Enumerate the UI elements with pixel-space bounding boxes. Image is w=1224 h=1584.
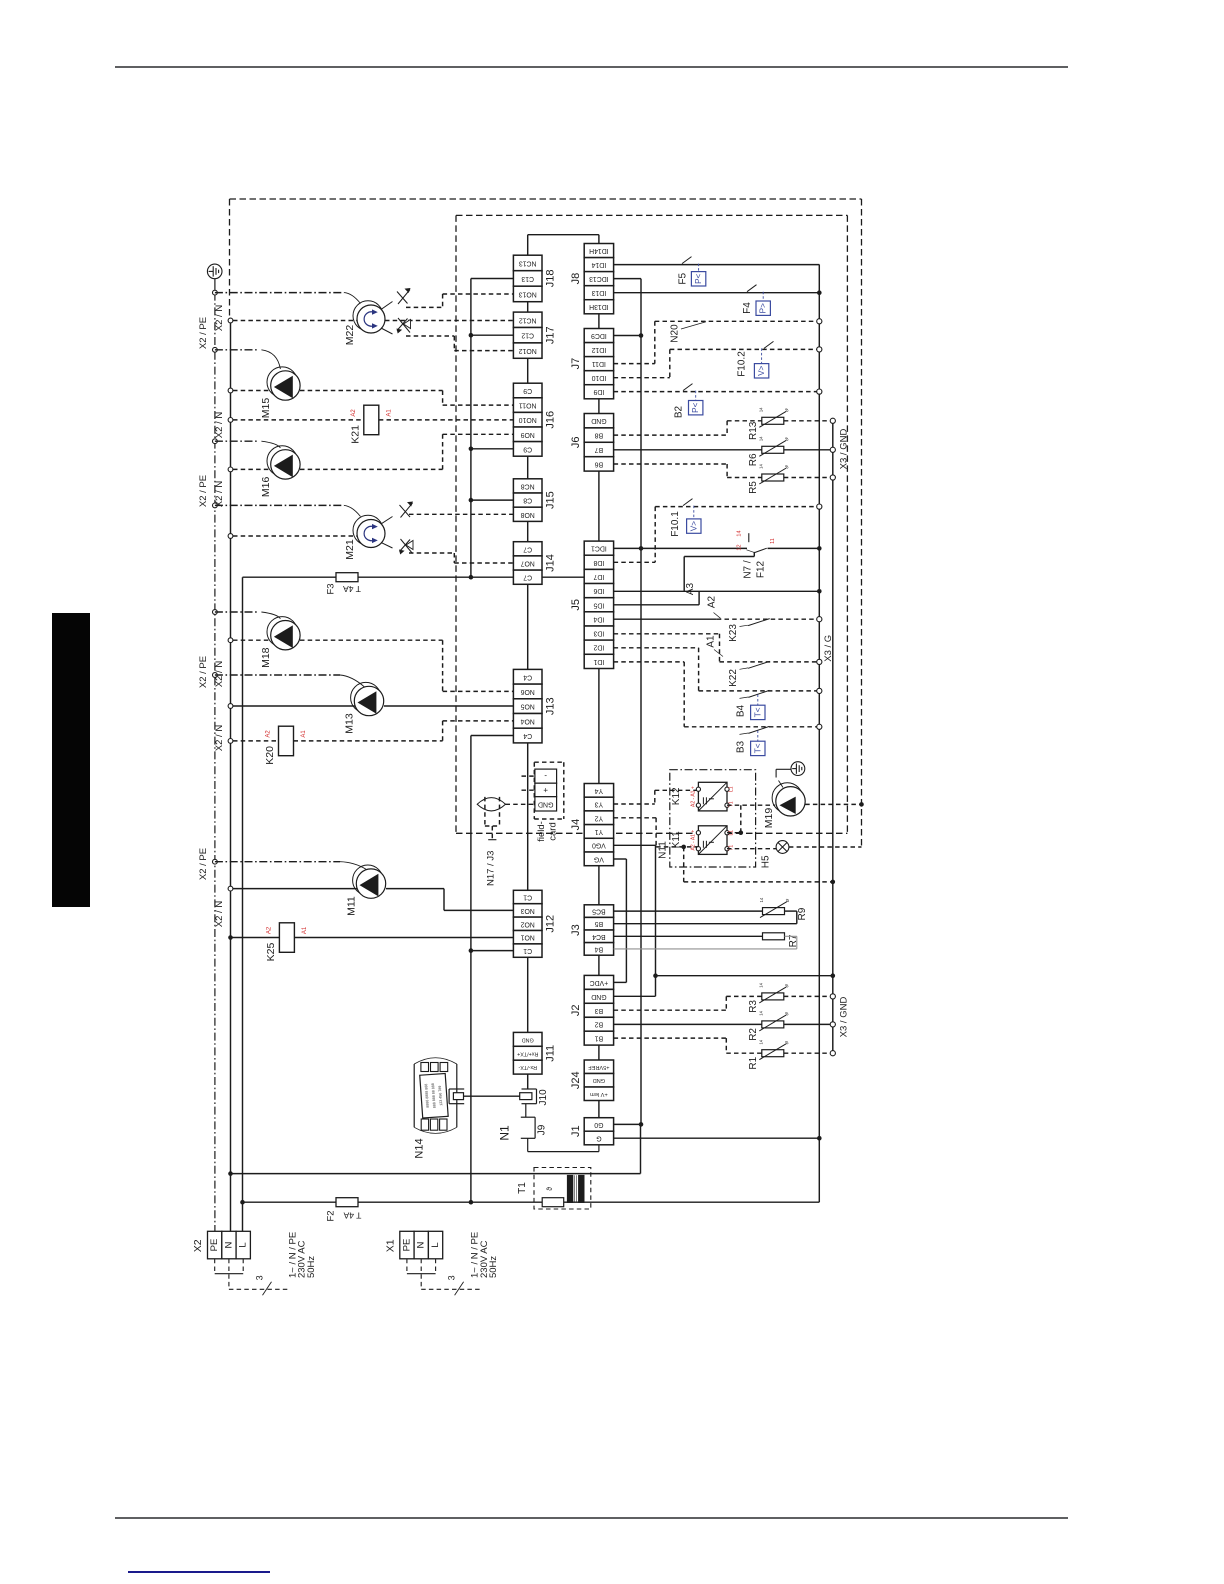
svg-text:C4: C4: [523, 673, 532, 680]
svg-text:IDC13: IDC13: [589, 275, 609, 282]
svg-text:Y3: Y3: [595, 801, 604, 808]
svg-text:C4: C4: [523, 732, 532, 739]
svg-text:NO12: NO12: [519, 347, 537, 354]
svg-text:ϑ: ϑ: [784, 407, 791, 413]
svg-text:3: 3: [447, 1275, 457, 1280]
svg-text:B6: B6: [595, 460, 604, 467]
svg-text:ϑ: ϑ: [784, 464, 791, 470]
svg-text:F2: F2: [326, 1210, 337, 1221]
svg-text:ID10: ID10: [591, 374, 606, 381]
svg-text:A2 - A1 +: A2 - A1 +: [690, 786, 696, 807]
svg-text:T 4A: T 4A: [343, 584, 361, 594]
svg-text:P<: P<: [694, 273, 703, 283]
svg-text:C7: C7: [523, 574, 532, 581]
svg-text:A2: A2: [266, 730, 272, 738]
svg-text:X2 / PE: X2 / PE: [198, 656, 209, 688]
svg-text:50Hz: 50Hz: [306, 1256, 317, 1278]
svg-text:G0: G0: [594, 1121, 603, 1128]
svg-text:M21: M21: [344, 539, 356, 560]
svg-text:Rx+/TX+: Rx+/TX+: [517, 1050, 538, 1056]
svg-text:F5: F5: [677, 273, 688, 285]
svg-text:+5VREF: +5VREF: [588, 1064, 610, 1070]
svg-text:J6: J6: [570, 436, 582, 448]
svg-text:VG: VG: [594, 855, 604, 862]
svg-text:X3 / GND: X3 / GND: [839, 429, 850, 470]
svg-text:X1: X1: [384, 1239, 396, 1252]
svg-text:A2: A2: [707, 595, 718, 608]
svg-text:3: 3: [255, 1275, 265, 1280]
svg-text:ID5: ID5: [593, 601, 604, 608]
svg-text:M22: M22: [344, 325, 356, 346]
svg-text:Y1: Y1: [595, 828, 604, 835]
svg-text:NO9: NO9: [520, 431, 534, 438]
svg-text:X2 / N: X2 / N: [214, 901, 225, 928]
svg-text:ID13: ID13: [591, 289, 606, 296]
svg-text:GND: GND: [591, 417, 606, 424]
svg-text:X2 / N: X2 / N: [214, 412, 225, 439]
svg-text:J9: J9: [536, 1124, 547, 1135]
svg-text:ID8: ID8: [593, 559, 604, 566]
svg-text:J24: J24: [570, 1071, 582, 1089]
svg-text:T<: T<: [753, 743, 762, 753]
svg-text:J14: J14: [545, 554, 557, 572]
svg-text:14: 14: [758, 407, 763, 412]
svg-text:B7: B7: [595, 446, 604, 453]
svg-text:R9: R9: [797, 907, 808, 920]
svg-text:R2: R2: [748, 1028, 759, 1041]
svg-text:14: 14: [737, 530, 743, 536]
svg-text:C1: C1: [523, 947, 532, 954]
svg-text:H5: H5: [760, 855, 771, 868]
svg-text:M19: M19: [763, 808, 775, 829]
svg-text:C1: C1: [523, 894, 532, 901]
svg-text:T 4A: T 4A: [343, 1211, 361, 1221]
svg-text:B1: B1: [595, 1035, 604, 1042]
svg-text:BC5: BC5: [592, 908, 606, 915]
svg-text:G: G: [596, 1135, 601, 1142]
svg-text:L: L: [430, 1242, 441, 1247]
svg-text:Y2: Y2: [595, 814, 604, 821]
svg-text:ID14: ID14: [591, 261, 606, 268]
svg-text:R5: R5: [748, 481, 759, 494]
svg-text:IDC9: IDC9: [591, 332, 607, 339]
svg-text:M13: M13: [344, 713, 356, 734]
svg-text:B2: B2: [674, 405, 685, 418]
svg-text:X2 / N: X2 / N: [214, 305, 225, 332]
svg-text:B5: B5: [595, 920, 604, 927]
svg-text:L: L: [238, 1242, 249, 1247]
svg-text:NO2: NO2: [520, 920, 534, 927]
svg-text:+: +: [543, 786, 548, 795]
svg-text:A3: A3: [685, 582, 696, 595]
svg-text:L1: L1: [728, 786, 734, 792]
svg-text:ϑ: ϑ: [547, 1187, 554, 1191]
svg-text:NC8: NC8: [521, 482, 535, 489]
svg-text:A1: A1: [302, 926, 308, 934]
svg-text:11: 11: [770, 538, 776, 544]
svg-text:J4: J4: [570, 819, 582, 831]
svg-text:C9: C9: [523, 387, 532, 394]
svg-text:B3: B3: [595, 1007, 604, 1014]
svg-text:-: -: [544, 772, 547, 781]
svg-text:14: 14: [758, 982, 763, 987]
svg-text:NO8: NO8: [520, 511, 534, 518]
svg-text:F12: F12: [755, 560, 766, 578]
svg-text:N17 / J3: N17 / J3: [485, 851, 496, 886]
svg-text:GND: GND: [591, 993, 606, 1000]
svg-text:T1: T1: [517, 1182, 528, 1194]
svg-text:NO11: NO11: [519, 402, 537, 409]
svg-text:C7: C7: [523, 545, 532, 552]
svg-text:12: 12: [737, 544, 743, 550]
svg-text:GND: GND: [538, 800, 554, 807]
svg-text:A1: A1: [706, 635, 717, 648]
svg-text:Rx-/TX-: Rx-/TX-: [518, 1064, 537, 1070]
svg-text:14: 14: [759, 897, 764, 902]
svg-text:X2 / PE: X2 / PE: [198, 317, 209, 349]
svg-text:V>: V>: [689, 521, 698, 531]
svg-text:R6: R6: [748, 453, 759, 466]
svg-text:J13: J13: [545, 697, 557, 715]
svg-text:N1: N1: [498, 1125, 512, 1141]
svg-text:X2 / PE: X2 / PE: [198, 848, 209, 880]
svg-text:ϑ: ϑ: [785, 898, 792, 904]
svg-text:ϑ: ϑ: [784, 1040, 791, 1046]
svg-text:P<: P<: [691, 402, 700, 412]
svg-text:M15: M15: [260, 398, 272, 419]
svg-text:F4: F4: [742, 302, 753, 314]
svg-text:M18: M18: [260, 647, 272, 668]
svg-text:C12: C12: [521, 332, 534, 339]
svg-text:K11: K11: [671, 831, 682, 848]
svg-text:NC12: NC12: [519, 316, 537, 323]
svg-text:field-: field-: [536, 821, 547, 842]
svg-text:14: 14: [758, 436, 763, 441]
svg-text:Y4: Y4: [595, 787, 604, 794]
svg-text:card: card: [548, 822, 559, 840]
svg-text:R1: R1: [748, 1056, 759, 1069]
svg-text:IDC1: IDC1: [591, 545, 607, 552]
svg-text:50Hz: 50Hz: [488, 1256, 499, 1278]
svg-text:N: N: [224, 1241, 235, 1248]
svg-text:B4: B4: [736, 704, 747, 717]
svg-text:X2: X2: [192, 1239, 204, 1252]
svg-text:C9: C9: [523, 445, 532, 452]
svg-text:ID3: ID3: [593, 630, 604, 637]
svg-text:ID11: ID11: [592, 360, 606, 367]
svg-text:+V lem: +V lem: [590, 1091, 608, 1097]
svg-text:K25: K25: [265, 943, 277, 962]
svg-text:C13: C13: [521, 275, 534, 282]
svg-text:B8: B8: [595, 432, 604, 439]
svg-text:J15: J15: [545, 491, 557, 509]
svg-text:N7 /: N7 /: [742, 560, 753, 579]
svg-text:A2: A2: [266, 926, 272, 934]
svg-text:+VDC: +VDC: [590, 979, 609, 986]
svg-text:ϑ: ϑ: [784, 436, 791, 442]
svg-text:VG0: VG0: [592, 842, 606, 849]
svg-text:14: 14: [758, 464, 763, 469]
svg-text:J18: J18: [545, 270, 557, 288]
svg-text:X3 / G: X3 / G: [823, 635, 834, 662]
svg-text:A1: A1: [301, 730, 307, 738]
svg-text:F10.2: F10.2: [737, 351, 748, 377]
svg-text:14: 14: [758, 1010, 763, 1015]
svg-text:X3 / GND: X3 / GND: [839, 997, 850, 1038]
svg-text:K20: K20: [264, 746, 276, 765]
svg-text:NC13: NC13: [519, 259, 537, 266]
svg-text:N: N: [416, 1241, 427, 1248]
svg-text:J5: J5: [570, 599, 582, 611]
svg-text:N14: N14: [414, 1138, 426, 1158]
svg-text:J10: J10: [538, 1089, 549, 1106]
svg-text:ID12: ID12: [591, 346, 606, 353]
svg-text:K23: K23: [728, 624, 739, 642]
svg-text:ID1: ID1: [593, 658, 604, 665]
svg-text:PE: PE: [209, 1239, 220, 1252]
svg-text:T1: T1: [728, 845, 734, 851]
svg-text:A2: A2: [351, 409, 357, 417]
svg-text:ID14H: ID14H: [589, 247, 609, 254]
svg-text:B2: B2: [595, 1021, 604, 1028]
svg-text:GND: GND: [593, 1077, 605, 1083]
svg-text:P>: P>: [759, 303, 768, 313]
svg-text:R13: R13: [748, 421, 759, 440]
svg-text:J1: J1: [570, 1125, 582, 1137]
svg-text:14: 14: [758, 1039, 763, 1044]
svg-text:M11: M11: [346, 896, 358, 916]
svg-text:ϑ: ϑ: [784, 983, 791, 989]
svg-text:T1: T1: [728, 801, 734, 807]
svg-text:V>: V>: [757, 365, 766, 375]
svg-text:T<: T<: [753, 707, 762, 717]
svg-text:X2 / N: X2 / N: [214, 725, 225, 752]
svg-text:ϑ: ϑ: [784, 1011, 791, 1017]
svg-text:J3: J3: [570, 924, 582, 936]
svg-text:B4: B4: [595, 945, 604, 952]
svg-text:ID4: ID4: [593, 615, 604, 622]
svg-text:BC4: BC4: [592, 933, 606, 940]
svg-text:A1: A1: [386, 409, 392, 417]
svg-text:N20: N20: [670, 324, 681, 343]
svg-text:J17: J17: [545, 326, 557, 344]
svg-text:NO4: NO4: [520, 717, 534, 724]
svg-text:ID2: ID2: [593, 644, 604, 651]
svg-text:NO13: NO13: [519, 290, 537, 297]
svg-text:M16: M16: [260, 477, 272, 498]
svg-text:NO3: NO3: [520, 907, 534, 914]
svg-text:NO7: NO7: [520, 560, 534, 567]
svg-text:N11: N11: [658, 841, 669, 859]
svg-text:NO10: NO10: [519, 416, 537, 423]
svg-text:NO1: NO1: [520, 934, 534, 941]
svg-text:ID9: ID9: [593, 388, 604, 395]
svg-text:X2 / PE: X2 / PE: [198, 475, 209, 507]
svg-text:K22: K22: [728, 669, 739, 687]
svg-text:J2: J2: [570, 1004, 582, 1016]
svg-text:F10.1: F10.1: [670, 511, 681, 537]
svg-text:PE: PE: [401, 1239, 412, 1252]
svg-text:K21: K21: [349, 425, 361, 444]
svg-text:R3: R3: [748, 1000, 759, 1013]
svg-text:B3: B3: [736, 740, 747, 753]
svg-text:A2 - A1 +: A2 - A1 +: [690, 830, 696, 851]
svg-text:ID7: ID7: [593, 573, 604, 580]
svg-text:NO6: NO6: [520, 688, 534, 695]
svg-text:GND: GND: [522, 1036, 534, 1042]
svg-text:F3: F3: [326, 583, 337, 594]
svg-text:C8: C8: [523, 497, 532, 504]
svg-text:J8: J8: [570, 273, 582, 285]
svg-text:ID6: ID6: [593, 587, 604, 594]
svg-text:ID13H: ID13H: [589, 303, 609, 310]
svg-text:J12: J12: [545, 915, 557, 933]
svg-text:J7: J7: [570, 358, 582, 370]
svg-text:J16: J16: [545, 411, 557, 429]
svg-text:K12: K12: [671, 787, 682, 805]
svg-text:J11: J11: [545, 1045, 557, 1062]
svg-text:NO5: NO5: [520, 703, 534, 710]
